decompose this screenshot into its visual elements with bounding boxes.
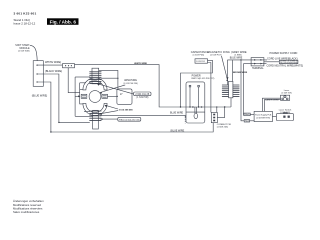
svg-text:SWITCH(1 619 P09 722): SWITCH(1 619 P09 722) [191, 78, 214, 80]
svg-text:2 604 011 28: 2 604 011 28 [135, 93, 149, 96]
svg-text:3 601 K23 601: 3 601 K23 601 [14, 12, 37, 16]
svg-text:(1 619 P08): (1 619 P08) [136, 97, 148, 99]
svg-text:(1 619 P07): (1 619 P07) [210, 55, 222, 57]
svg-text:(BLUE WIRE): (BLUE WIRE) [32, 95, 48, 98]
svg-text:(1 888): (1 888) [235, 55, 242, 57]
svg-text:(1 619 X08): (1 619 X08) [18, 51, 30, 53]
svg-text:TERMINAL: TERMINAL [252, 67, 264, 70]
svg-text:(1 619 P06 286): (1 619 P06 286) [123, 83, 138, 85]
svg-text:SOFT START: SOFT START [15, 44, 30, 47]
svg-text:WHITE WIRE): WHITE WIRE) [45, 61, 61, 64]
svg-text:CORD LIVE WIRE(BLACK): CORD LIVE WIRE(BLACK) [267, 57, 298, 60]
svg-text:1 619 P01: 1 619 P01 [196, 61, 206, 63]
svg-text:POWER: POWER [192, 74, 201, 77]
svg-text:CORD NEUTRAL WIRE(WHITE): CORD NEUTRAL WIRE(WHITE) [267, 65, 304, 68]
svg-text:CAPACITANCE: CAPACITANCE [191, 50, 209, 54]
svg-text:MODULE: MODULE [20, 48, 30, 50]
svg-text:FIELD (2 604 220 574): FIELD (2 604 220 574) [119, 119, 140, 121]
svg-text:Issue 2 18-12-12: Issue 2 18-12-12 [14, 21, 36, 25]
svg-text:(BLACK WIRE): (BLACK WIRE) [45, 70, 62, 73]
svg-text:LASER WIRE: LASER WIRE [265, 99, 279, 102]
svg-text:(1 619 P06): (1 619 P06) [193, 55, 205, 57]
svg-text:(1 609 929): (1 609 929) [281, 93, 292, 95]
svg-text:(GREY WIRE: (GREY WIRE [231, 50, 247, 54]
svg-text:(1 609 B99 999): (1 609 B99 999) [256, 117, 270, 119]
svg-text:BLUE WIRE: BLUE WIRE [170, 111, 184, 114]
svg-text:Red: Red [245, 121, 249, 123]
svg-text:POWER SUPPLY CORD: POWER SUPPLY CORD [270, 52, 298, 55]
svg-text:(1 609 203): (1 609 203) [217, 127, 228, 129]
svg-text:Power Supply PCB: Power Supply PCB [255, 113, 272, 116]
svg-text:(1 609 930): (1 609 930) [280, 112, 291, 114]
svg-text:BLUE WIRE: BLUE WIRE [230, 57, 243, 59]
svg-text:Fig. / Abb. 6: Fig. / Abb. 6 [50, 20, 77, 25]
svg-text:BROWN WIRE: BROWN WIRE [233, 72, 248, 74]
svg-text:ARMATURE: ARMATURE [124, 79, 137, 82]
svg-text:27: 27 [120, 94, 123, 96]
svg-text:2 610 398 089: 2 610 398 089 [119, 109, 134, 111]
svg-text:WHITE WIRE: WHITE WIRE [134, 63, 147, 65]
svg-text:Black: Black [245, 114, 250, 116]
svg-text:Salvo modificaciones: Salvo modificaciones [13, 210, 40, 214]
svg-text:YELLOW STRIPE WIRE): YELLOW STRIPE WIRE) [280, 62, 298, 64]
svg-text:MAGNETIC RING: MAGNETIC RING [208, 50, 230, 54]
svg-text:(BLUE WIRE: (BLUE WIRE [170, 129, 184, 132]
